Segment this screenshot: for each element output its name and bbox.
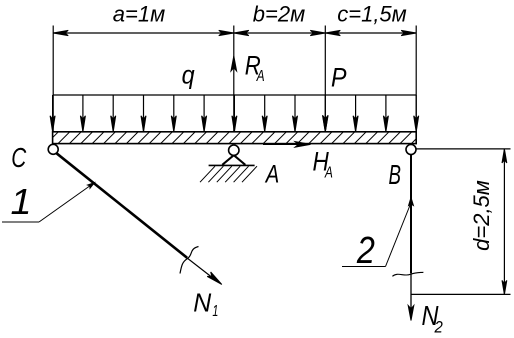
rod 1 xyxy=(56,153,187,258)
leader label 1 xyxy=(11,181,32,222)
svg-text:q: q xyxy=(182,60,195,90)
dimension line b=2м xyxy=(234,2,325,36)
extension line at P xyxy=(324,26,326,132)
force N1 arrow xyxy=(178,251,222,285)
extension line at B (right) xyxy=(415,26,417,132)
rod 2 cut squiggle xyxy=(392,272,423,276)
dimension line a=1м xyxy=(53,2,234,36)
svg-text:A: A xyxy=(264,161,279,189)
extension line at A xyxy=(233,26,235,132)
leader line 1 xyxy=(2,183,95,222)
extension line at C (left) xyxy=(52,26,54,132)
rod 1 cut squiggle xyxy=(180,247,199,274)
label q xyxy=(182,60,195,90)
reaction H_A arrow xyxy=(263,142,311,148)
svg-text:b=2м: b=2м xyxy=(253,2,305,27)
force P arrow xyxy=(323,115,329,132)
support A ground line xyxy=(209,164,255,166)
leader line 2 xyxy=(342,198,413,267)
label A xyxy=(264,161,279,189)
label C xyxy=(11,142,27,173)
reaction R_A arrow xyxy=(231,56,237,71)
dimension line d=2,5м xyxy=(469,149,507,295)
force N2 arrow xyxy=(408,306,414,321)
svg-text:2: 2 xyxy=(356,230,375,272)
svg-text:P: P xyxy=(331,63,347,93)
support A triangle xyxy=(222,155,245,165)
beam xyxy=(47,132,424,144)
label R_A xyxy=(245,51,265,85)
label N2 xyxy=(422,300,444,336)
leader label 2 xyxy=(356,230,375,272)
svg-text:B: B xyxy=(389,159,402,190)
svg-text:A: A xyxy=(256,68,265,85)
label P xyxy=(331,63,347,93)
svg-text:2: 2 xyxy=(434,317,444,336)
extension line bottom xyxy=(411,293,511,295)
hinge B xyxy=(406,145,416,155)
svg-text:c=1,5м: c=1,5м xyxy=(337,2,407,27)
distributed load arrows xyxy=(50,95,419,132)
support A ground hatching xyxy=(200,166,257,182)
dimension line c=1,5м xyxy=(325,2,416,36)
label H_A xyxy=(313,147,333,182)
hinge C xyxy=(48,144,58,154)
svg-text:1: 1 xyxy=(11,181,32,222)
hinge A xyxy=(229,145,239,155)
svg-text:d=2,5м: d=2,5м xyxy=(469,180,494,251)
label B xyxy=(389,159,402,190)
distributed load q line xyxy=(53,94,417,96)
rod 2 xyxy=(410,154,412,317)
svg-text:1: 1 xyxy=(212,303,218,320)
label N1 xyxy=(193,288,218,320)
svg-text:N: N xyxy=(193,288,211,318)
svg-text:C: C xyxy=(11,142,27,173)
svg-text:A: A xyxy=(324,165,333,182)
extension line top at B xyxy=(416,148,511,150)
svg-text:a=1м: a=1м xyxy=(113,2,165,27)
